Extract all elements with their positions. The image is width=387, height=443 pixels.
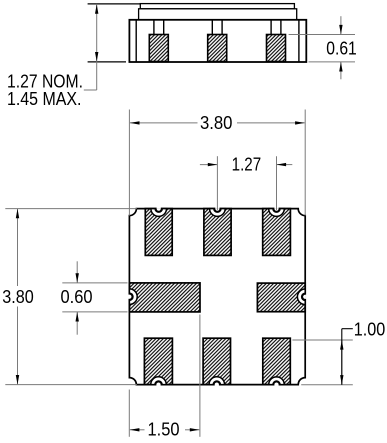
bottom view bottom pad 5 (hatched) [203, 338, 230, 384]
dimension 1.00: extension lines [292, 339, 352, 341]
svg-text:1.45 MAX.: 1.45 MAX. [7, 88, 82, 109]
dimension 1.00: dimension line [341, 340, 343, 385]
svg-text:0.61: 0.61 [326, 37, 357, 58]
dimension 1.27 NOM / 1.45 MAX : top extension line [88, 3, 140, 5]
dimension 1.50: dimension line [130, 429, 145, 431]
dimension 3.80 vertical: dimension line [17, 209, 19, 286]
side view pin 2 neck [211, 20, 213, 35]
dimension 1.27 NOM / 1.45 MAX : dimension line with leader [96, 4, 98, 90]
side view lid top layer [140, 4, 294, 9]
castellation middle-right pad [297, 289, 305, 305]
castellation bottom pad 5 [209, 377, 225, 385]
svg-text:3.80: 3.80 [2, 286, 34, 307]
svg-text:0.60: 0.60 [61, 286, 93, 307]
side view pin 2 pad (hatched) [208, 35, 227, 62]
side view lid second layer [139, 9, 297, 20]
dimension 3.80 vertical: extension lines [5, 208, 137, 210]
side view left inner wall [135, 20, 137, 62]
dimension 0.60: extension lines [62, 282, 127, 284]
dimension 3.80 horizontal: extension lines [128, 110, 130, 216]
dimension 3.80 horizontal: dimension line [130, 122, 198, 124]
bottom view bottom pad 6 (hatched) [263, 338, 291, 384]
bottom view middle-left pad (hatched) [129, 283, 200, 312]
dimension 0.61 : bottom extension line [309, 61, 356, 63]
bottom view middle-right pad (hatched) [257, 283, 305, 312]
side view right inner wall [298, 20, 300, 62]
side view pin 1 pad (hatched) [149, 35, 168, 62]
bottom view top pad 1 (hatched) [145, 209, 172, 256]
bottom view bottom pad 4 (hatched) [144, 338, 172, 384]
side view pin 1 neck [153, 20, 155, 35]
dimension 1.27 pitch: extension lines [216, 156, 218, 210]
castellation bottom pad 6 [269, 377, 285, 385]
bottom view top pad 3 (hatched) [263, 209, 291, 256]
svg-text:1.00: 1.00 [354, 318, 386, 339]
castellation top pad 1 [151, 209, 167, 217]
dimension 0.60: arrow stems [76, 261, 78, 283]
dimension 1.27 NOM / 1.45 MAX : bottom extension line [88, 61, 126, 63]
side view pin 3 pad (hatched) [267, 35, 286, 62]
svg-text:1.27: 1.27 [232, 154, 262, 175]
castellation top pad 2 [210, 209, 226, 217]
dimension 1.27 pitch: dimension line and arrows [200, 164, 218, 166]
dimension 0.61 : top extension line [289, 34, 355, 36]
svg-text:3.80: 3.80 [200, 112, 233, 133]
dimension 0.61 : arrow stems [340, 16, 342, 34]
bottom view body outline with corner reliefs [129, 209, 305, 385]
castellation top pad 3 [269, 209, 285, 217]
castellation middle-left pad [129, 289, 137, 305]
bottom view top pad 2 (hatched) [204, 209, 231, 256]
dimension 1.00: leader elbow [341, 329, 343, 340]
dimension 1.50: extension lines [128, 390, 130, 437]
side view body [129, 20, 306, 62]
side view pin 3 neck [270, 20, 272, 35]
svg-text:1.50: 1.50 [148, 419, 180, 440]
castellation bottom pad 4 [151, 377, 167, 385]
